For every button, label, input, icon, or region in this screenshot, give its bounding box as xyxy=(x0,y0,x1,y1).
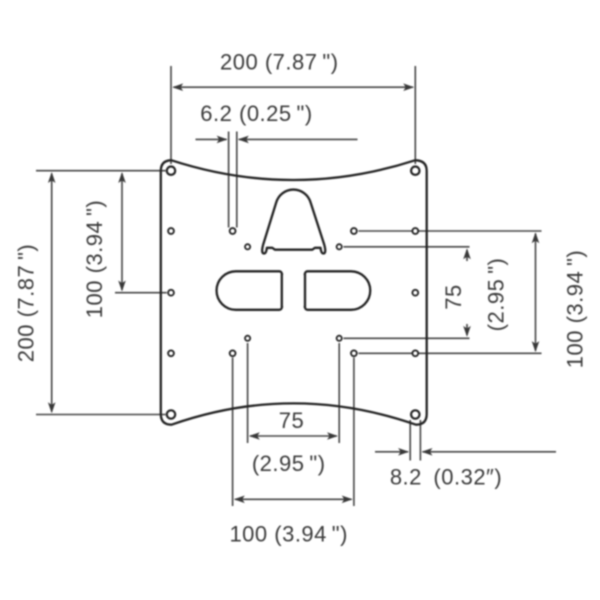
slot left end knobs xyxy=(281,273,283,275)
hole vesa100 BR xyxy=(351,350,357,356)
wire ext line left top (y=170.7) xyxy=(36,170,166,172)
arrowheads 6.2 xyxy=(217,136,228,144)
hole vesa75 BR xyxy=(337,336,342,341)
hole right col mid xyxy=(412,290,418,296)
bell keyhole cutout xyxy=(262,190,325,254)
wire 6.2 right leader xyxy=(239,138,358,140)
slot right end knobs xyxy=(304,273,306,275)
svg-text:200 (7.87 "): 200 (7.87 ") xyxy=(14,244,39,363)
wire right 75 arrow tails xyxy=(466,250,468,261)
hole vesa100 TL 6.2mm xyxy=(230,228,236,234)
wire ext line top-right corner (x=415.3) xyxy=(414,66,416,164)
arrowheads left 200 xyxy=(48,172,56,183)
hole corner BL xyxy=(167,410,175,418)
hole corner TL 8.2mm xyxy=(167,167,175,175)
svg-text:(2.95 "): (2.95 ") xyxy=(484,258,509,332)
arrowheads right 100 xyxy=(532,232,540,243)
arrowheads bottom 100 xyxy=(234,496,245,504)
hole left col row2 xyxy=(168,228,174,234)
hole vesa100 TR xyxy=(351,228,357,234)
wire ext line left bottom (y=414.5) xyxy=(36,414,166,416)
hole left col row4 xyxy=(168,350,174,356)
wire ext lines bottom 100 xyxy=(232,358,234,507)
hole right col row4 xyxy=(412,350,418,356)
hole left col mid xyxy=(168,290,174,296)
wire dim line 200 left xyxy=(51,174,53,412)
arrowheads left 100 xyxy=(118,172,126,183)
svg-text:100 (3.94 "): 100 (3.94 ") xyxy=(229,522,348,547)
wire ext line right 75 top (y=246.8) xyxy=(344,246,470,248)
wire dim line 100 bottom xyxy=(235,498,352,500)
wire 8.2 left leader xyxy=(375,451,408,453)
svg-text:75: 75 xyxy=(441,284,466,309)
wire ext line right 100 bottom (y=353.3) xyxy=(359,352,542,354)
svg-text:200 (7.87 "): 200 (7.87 ") xyxy=(220,50,339,75)
wire dim line 100 right xyxy=(535,234,537,351)
wire ext line right 100 top (y=231) xyxy=(359,230,542,232)
wire ext line top-left corner (x=171) xyxy=(170,66,172,164)
plate outline xyxy=(161,160,427,424)
arrowheads bottom 75 xyxy=(249,432,260,440)
wire dim line 75 bottom xyxy=(250,435,337,437)
hole vesa75 TR xyxy=(337,244,342,249)
svg-text:6.2 (0.25 "): 6.2 (0.25 ") xyxy=(200,101,312,126)
hole vesa75 BL xyxy=(245,336,250,341)
wire ext line left middle (y=292.7) xyxy=(115,292,167,294)
wire ext lines 8.2 xyxy=(409,420,411,461)
svg-text:100 (3.94 "): 100 (3.94 ") xyxy=(82,200,107,319)
wire ext lines bottom 75 xyxy=(247,343,249,443)
svg-text:(2.95 "): (2.95 ") xyxy=(252,451,326,476)
hole corner TR xyxy=(411,167,419,175)
hole vesa75 TL xyxy=(245,244,250,249)
arrowheads 8.2 xyxy=(398,448,409,456)
slot left xyxy=(217,271,282,310)
wire 6.2 left leader xyxy=(196,138,227,140)
wire ext lines 6.2 xyxy=(228,132,230,228)
wire 8.2 right leader xyxy=(423,451,556,453)
svg-text:75: 75 xyxy=(279,408,304,433)
wire dim line 100 left xyxy=(121,174,123,291)
arrowheads top 200 xyxy=(172,83,183,91)
hole right col row2 xyxy=(412,228,418,234)
svg-text:100 (3.94 "): 100 (3.94 ") xyxy=(563,250,588,369)
slot right xyxy=(305,271,370,310)
wire ext line right 75 bottom (y=338.3) xyxy=(344,337,470,339)
arrowheads right 75 xyxy=(463,248,471,259)
hole corner BR xyxy=(411,410,419,418)
svg-text:8.2 (0.32″): 8.2 (0.32″) xyxy=(390,465,502,490)
wire dim line 200 top xyxy=(174,86,414,88)
hole vesa100 BL xyxy=(230,350,236,356)
